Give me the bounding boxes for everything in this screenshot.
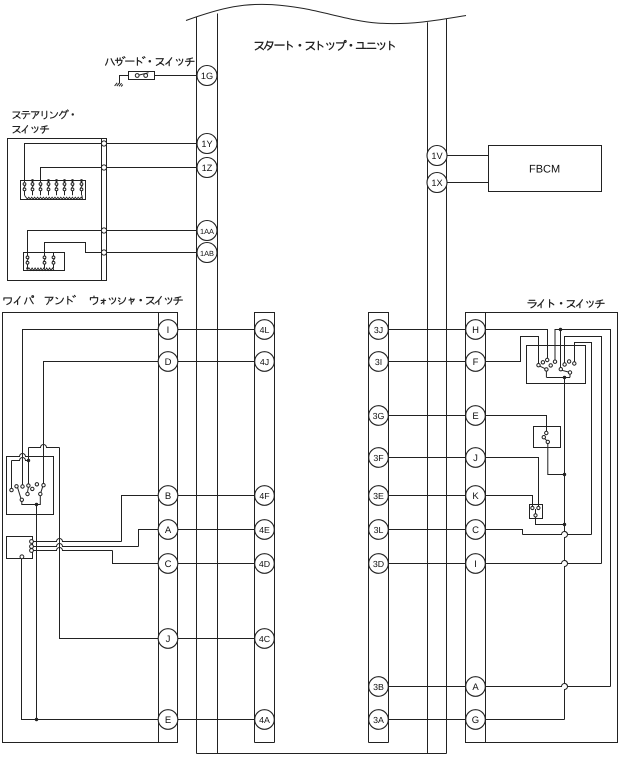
wire: F feed to pivot1 <box>485 337 538 364</box>
node 4J <box>255 352 275 372</box>
wire: start-stop unit bottom edge <box>197 753 447 755</box>
steering connector strip divider <box>101 139 103 281</box>
wire: E row to flasher <box>485 416 546 432</box>
label: steering switch (line2) <box>13 126 20 132</box>
wire: hazard switch left lead <box>120 76 129 84</box>
wire: D to rotary contact <box>44 362 159 484</box>
steering strip terminal 1 <box>101 141 106 146</box>
junction: bottom bar / main riser <box>563 376 566 379</box>
node 1G <box>197 66 217 86</box>
wire: row A-4E <box>178 529 255 531</box>
svg-text:3L: 3L <box>374 525 384 535</box>
wire: A row to net-A riser <box>485 684 610 687</box>
node wiper E <box>158 710 178 730</box>
wire: 1Z feed to resistor network col3 <box>41 168 102 183</box>
wire: net-C bracket <box>575 343 592 535</box>
junction on lower network <box>26 267 29 270</box>
light rotary switch 1 <box>537 358 557 377</box>
wiper rotary internals <box>10 483 45 507</box>
steering switch box <box>8 139 107 281</box>
FBCM box <box>489 146 602 192</box>
wire: E to washer switch bottom pin <box>22 559 159 720</box>
washer switch box <box>7 537 33 559</box>
svg-text:I: I <box>167 325 170 336</box>
wire: net-I bracket <box>565 337 602 564</box>
wire: J bracket over rotary box <box>29 445 60 448</box>
wire: hazard switch to 1G <box>155 75 198 77</box>
node 3J <box>369 320 389 340</box>
svg-text:4E: 4E <box>259 525 270 535</box>
node light J <box>466 448 486 468</box>
wire: start-stop unit right bus inner line <box>427 22 429 753</box>
connector strip 4x <box>255 313 275 743</box>
node 1AA <box>197 221 217 241</box>
wire: B to washer switch <box>122 496 159 542</box>
svg-text:3J: 3J <box>374 325 383 335</box>
label: start-stop unit <box>255 42 263 49</box>
wire: flasher output to riser <box>548 444 565 475</box>
svg-text:K: K <box>472 491 479 502</box>
svg-text:J: J <box>166 634 171 645</box>
node 4A <box>255 710 275 730</box>
svg-text:1AA: 1AA <box>200 227 214 236</box>
node 3F <box>369 448 389 468</box>
node 3L <box>369 520 389 540</box>
wire: row 3L-C <box>388 529 466 531</box>
svg-text:J: J <box>473 453 478 464</box>
light rotary switch 2 <box>559 360 576 378</box>
wiper rotary switch box <box>7 454 54 515</box>
wire: row 3G-E <box>388 415 466 417</box>
node light I <box>466 554 486 574</box>
connector strip 3x <box>369 313 389 743</box>
svg-text:1G: 1G <box>201 71 213 81</box>
node 4C <box>255 629 275 649</box>
svg-text:E: E <box>472 411 478 422</box>
svg-text:1V: 1V <box>431 151 443 161</box>
node 4D <box>255 554 275 574</box>
wire: row 3B-A <box>388 686 466 688</box>
node 3D <box>369 554 389 574</box>
wire: steering terminal to 1AA <box>107 230 197 232</box>
steering upper network switch column 5 <box>55 179 58 195</box>
wire: row 3D-I <box>388 563 466 565</box>
steering lower switch network box <box>24 253 65 271</box>
node 1X <box>427 173 447 193</box>
svg-text:C: C <box>472 525 479 536</box>
label: steering switch (line1) <box>13 112 20 118</box>
node 3A <box>369 710 389 730</box>
steering upper network switch column 4 <box>47 179 50 195</box>
K switch box <box>530 505 543 519</box>
wire: A to washer switch <box>139 530 159 547</box>
wire: row I-4L <box>178 329 255 331</box>
wire: rotary output down to E row <box>36 505 38 720</box>
steering lower network switch column 2 <box>43 256 46 268</box>
svg-text:3D: 3D <box>373 559 384 569</box>
svg-text:C: C <box>165 559 172 570</box>
steering upper switch-resistor network box <box>21 181 86 200</box>
steering strip terminal 3 <box>101 228 106 233</box>
wire: row C-4D <box>178 563 255 565</box>
svg-text:F: F <box>473 357 479 368</box>
svg-text:1Y: 1Y <box>201 139 212 149</box>
node wiper A <box>158 520 178 540</box>
svg-text:1Z: 1Z <box>202 163 213 173</box>
svg-text:3I: 3I <box>375 357 382 367</box>
node light G <box>466 710 486 730</box>
wire: bracket drop to rotary contact <box>28 448 30 484</box>
node light A <box>466 677 486 697</box>
wire: multi-switch bottom bar <box>547 377 571 379</box>
node 1Z <box>197 158 217 178</box>
flasher switch <box>542 431 549 443</box>
wire: row 3F-J <box>388 457 466 459</box>
steering upper network switch column 2 <box>31 179 34 195</box>
wire: I to rotary contact <box>23 330 159 485</box>
node light E <box>466 406 486 426</box>
wire: main riser down to G row <box>565 378 568 720</box>
svg-text:3F: 3F <box>373 453 384 463</box>
wire: 1Y feed to resistor network col1 <box>25 144 102 183</box>
node 1Y <box>197 134 217 154</box>
svg-text:3B: 3B <box>373 682 384 692</box>
svg-text:A: A <box>165 525 172 536</box>
wire: 1X to FBCM <box>447 182 489 184</box>
wiper-washer switch box <box>3 313 178 743</box>
svg-text:4J: 4J <box>260 357 269 367</box>
wire: row 3E-K <box>388 495 466 497</box>
wire: C row jog to net-C riser <box>485 530 522 535</box>
flasher switch box <box>534 427 561 448</box>
svg-text:4A: 4A <box>259 715 270 725</box>
junction: flasher output <box>563 473 566 476</box>
wire: row D-4J <box>178 361 255 363</box>
junction: bracket/inner bracket <box>27 459 30 462</box>
node wiper D <box>158 352 178 372</box>
wire: net-A top run to right side <box>555 330 611 687</box>
label: wiper and washer switch <box>4 298 11 305</box>
resistor chain (lower network zigzag) <box>28 268 54 270</box>
svg-text:3G: 3G <box>373 411 385 421</box>
node 4F <box>255 486 275 506</box>
light multi-switch box <box>527 346 586 384</box>
svg-text:3E: 3E <box>373 491 384 501</box>
label: hazard switch <box>106 59 115 65</box>
steering lower network switch column 1 <box>26 256 29 268</box>
svg-text:E: E <box>165 715 171 726</box>
wire: J riser <box>60 448 159 639</box>
steering upper network switch column 6 <box>63 179 66 195</box>
wire: C to washer switch <box>113 551 159 564</box>
wire: start-stop unit left bus outer line <box>196 17 198 754</box>
wire: K row to K-box <box>485 496 532 507</box>
wire: I row to net-I riser <box>485 561 601 564</box>
wire: row B-4F <box>178 495 255 497</box>
wire: steering terminal to 1AB <box>107 252 197 254</box>
hazard switch SW <box>129 72 155 80</box>
svg-text:3A: 3A <box>373 715 384 725</box>
svg-text:4L: 4L <box>260 325 270 335</box>
wire: row J-4C <box>178 638 255 640</box>
node 4E <box>255 520 275 540</box>
K switch internals <box>531 506 540 517</box>
node wiper I <box>158 320 178 340</box>
node 3B <box>369 677 389 697</box>
wire: 1AA feed to lower network col1 <box>28 231 102 257</box>
node light C <box>466 520 486 540</box>
wire: pivot2 feed <box>560 330 562 368</box>
svg-text:FBCM: FBCM <box>529 163 560 175</box>
svg-text:G: G <box>472 715 479 726</box>
junction: pivot2 / net-A <box>559 328 562 331</box>
svg-text:H: H <box>472 325 479 336</box>
node wiper C <box>158 554 178 574</box>
svg-text:1AB: 1AB <box>200 249 214 258</box>
wire: 1V to FBCM <box>447 155 489 157</box>
wire: K-box output to riser <box>536 517 565 524</box>
svg-text:1X: 1X <box>431 178 442 188</box>
steering strip terminal 2 <box>101 165 106 170</box>
svg-text:D: D <box>165 357 172 368</box>
steering upper network switch column 3 <box>39 183 42 196</box>
node 1V <box>427 146 447 166</box>
node wiper B <box>158 486 178 506</box>
wire: start-stop unit left bus inner line <box>217 14 219 754</box>
svg-text:4D: 4D <box>259 559 270 569</box>
steering lower network switch column 3 <box>52 253 55 269</box>
resistor chain (upper network zigzag) <box>25 195 83 199</box>
light connector strip divider <box>485 313 487 743</box>
wire: row 3J-H <box>388 329 466 331</box>
node 3E <box>369 486 389 506</box>
steering upper network switch column 7 <box>71 179 74 195</box>
wire: 1AB feed to lower network col2 (over-route) <box>45 243 102 257</box>
wire: G row <box>485 719 564 721</box>
node 1AB <box>197 243 217 263</box>
wire: steering terminal to 1Y <box>107 143 197 145</box>
wire: start-stop unit right bus outer line <box>446 19 448 754</box>
node light K <box>466 486 486 506</box>
node light H <box>466 320 486 340</box>
steering upper network switch column 1 <box>23 183 26 196</box>
light switch box <box>466 313 618 743</box>
svg-text:4C: 4C <box>259 634 271 644</box>
svg-text:B: B <box>165 491 171 502</box>
torn-edge wavy line of start-stop unit <box>186 4 466 23</box>
wire: row 3A-G <box>388 719 466 721</box>
svg-text:A: A <box>472 682 479 693</box>
wire: steering terminal to 1Z <box>107 167 197 169</box>
ground <box>115 83 123 87</box>
washer switch terminals <box>20 540 33 559</box>
wiper connector strip divider <box>158 313 160 743</box>
steering strip terminal 4 <box>101 250 106 255</box>
wire: inner bracket to left contact <box>12 458 29 461</box>
label: light switch <box>528 300 536 308</box>
junction: K-box output <box>563 523 566 526</box>
svg-text:I: I <box>474 559 477 570</box>
steering upper network switch column 8 <box>80 179 83 195</box>
wire: J row to K-box <box>485 458 538 507</box>
node light F <box>466 352 486 372</box>
wire: row 3I-F <box>388 361 466 363</box>
junction: rotary output / E wire <box>35 718 38 721</box>
node 3I <box>369 352 389 372</box>
node 4L <box>255 320 275 340</box>
svg-text:4F: 4F <box>259 491 270 501</box>
node wiper J <box>158 629 178 649</box>
wire: row E-4A <box>178 719 255 721</box>
node 3G <box>369 406 389 426</box>
wire: H to switch contact <box>485 330 547 359</box>
